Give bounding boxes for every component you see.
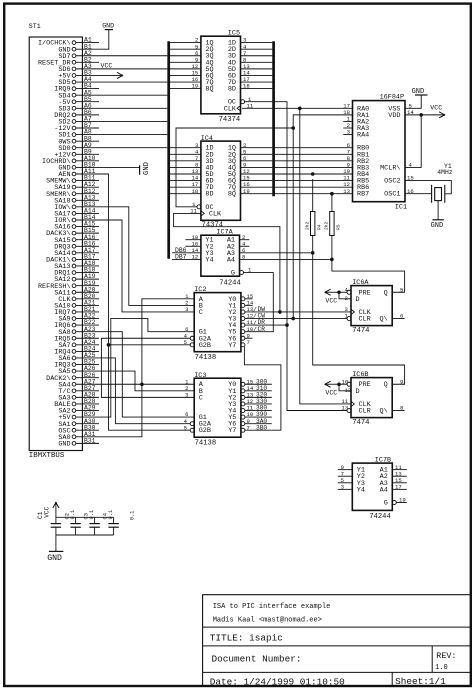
svg-text:16F84P: 16F84P: [380, 94, 404, 102]
svg-text:PRE: PRE: [359, 289, 371, 297]
wire OSC2 to resonator: [405, 175, 451, 194]
svg-text:PRE: PRE: [359, 381, 371, 389]
svg-text:IC6A: IC6A: [352, 279, 369, 287]
wire IC6B Q pin 9 to resistor R4 node: [313, 253, 405, 386]
svg-text:9: 9: [400, 378, 403, 385]
IC6A pin 3 CLK: [345, 306, 355, 315]
svg-text:3: 3: [341, 483, 344, 490]
connector ST1 pin B17 DACK1\: [46, 254, 99, 265]
svg-text:74138: 74138: [195, 354, 217, 362]
connector ST1 pin A1 I/OCHCK\: [38, 37, 99, 48]
wire SA5 to IC3 B: [99, 371, 194, 391]
svg-text:15: 15: [407, 175, 414, 182]
resonator Y1 4MHz: [432, 163, 453, 203]
IC2 pin 14 Y1 bubble: [241, 300, 254, 308]
svg-text:3B0: 3B0: [256, 424, 267, 431]
connector ST1 pin B24 IRQ4: [54, 345, 99, 356]
capacitor C4 0.1: [102, 510, 118, 535]
svg-text:74138: 74138: [195, 439, 217, 447]
svg-text:GND: GND: [431, 222, 444, 230]
svg-text:8D: 8D: [228, 86, 236, 94]
connector ST1 pin A28 SA3: [58, 391, 99, 402]
IC2 pin 5 G2B bubble: [184, 339, 195, 347]
node 380 at IC3 pin 11 Y4: [241, 405, 272, 413]
svg-text:VCC: VCC: [43, 506, 50, 517]
svg-text:Y7: Y7: [228, 427, 236, 435]
svg-text:CLK: CLK: [209, 210, 222, 218]
wire /CW IC2 Y3 to IC6A CLR: [245, 313, 347, 321]
svg-text:R5: R5: [336, 224, 342, 230]
wire RB2 bus to IC1 pin 8: [275, 155, 353, 162]
svg-text:VCC: VCC: [101, 62, 113, 69]
power VCC at IC6A PRE/D: [325, 286, 351, 304]
svg-text:ISA to PIC interface example: ISA to PIC interface example: [213, 603, 331, 611]
IC1 pin 3 RA4 stub: [343, 129, 352, 136]
svg-text:C: C: [199, 309, 203, 317]
svg-text:RA4: RA4: [357, 132, 369, 140]
svg-text:CW: CW: [258, 313, 266, 320]
IC7A pin 18 Y1 stub: [185, 234, 201, 241]
connector ST1 pin A10 IOCHRD\: [42, 155, 99, 166]
connector ST1 pin A31 SA0: [58, 431, 99, 442]
svg-text:Y7: Y7: [228, 342, 236, 350]
svg-text:5: 5: [400, 286, 403, 293]
svg-text:0.1: 0.1: [89, 510, 95, 520]
junction RA1 column at row 13: [291, 126, 295, 130]
IC2 pin 9 Y6 bubble: [241, 332, 250, 340]
IC2 pin 4 G2A bubble: [184, 332, 195, 340]
junction /CW: [291, 317, 295, 321]
IC7B pin 9 Y1 stub: [338, 464, 353, 471]
wire SA8 to IC3 G1: [99, 332, 194, 417]
wire RB6 bus to IC1 pin 12: [275, 181, 353, 188]
IC5 pin 2 1Q stub: [170, 37, 201, 44]
svg-text:7: 7: [247, 424, 250, 431]
svg-text:74374: 74374: [219, 116, 241, 124]
svg-text:B31: B31: [84, 437, 96, 444]
wire AEN to IC3 G2B and IC2 G2B: [99, 174, 190, 430]
node 330 at IC3 pin 12 Y3: [241, 398, 272, 406]
connector ST1 pin A24 SA7: [58, 339, 99, 350]
svg-text:G2B: G2B: [199, 342, 211, 350]
connector ST1 pin B21 IRQ7: [54, 306, 99, 317]
wire IC2 G2A to IC3 C: [101, 338, 194, 397]
title block text: [210, 603, 457, 687]
IC1 pin 1 RA2 stub: [343, 116, 352, 123]
node 310 at IC3 pin 14 Y1: [241, 385, 272, 393]
IC U7A 74244 buffer body: [201, 229, 241, 288]
IC5 pin 11 CLK: [237, 102, 254, 111]
junction RA0 node: [298, 107, 302, 111]
IC7B pin 19 G bubble stub: [392, 497, 407, 505]
wire IOR to IC2 C: [99, 220, 194, 312]
IC6A pin 6 Q\ stub: [392, 313, 404, 320]
svg-text:Y4: Y4: [205, 256, 213, 264]
connector ST1 pin B9 +12V: [54, 148, 99, 159]
wire SA0 to IC2 A: [99, 299, 194, 437]
connector ST1 pin A8 SD1: [58, 129, 99, 140]
connector ST1 pin A11 AEN: [58, 168, 99, 179]
svg-text:Q: Q: [384, 289, 388, 297]
svg-text:C: C: [199, 394, 203, 402]
svg-text:G2B: G2B: [199, 427, 211, 435]
svg-text:R4: R4: [316, 224, 322, 230]
svg-text:0.1: 0.1: [70, 510, 76, 520]
svg-text:IBMXTBUS: IBMXTBUS: [29, 452, 65, 460]
capacitor C1 0.1: [51, 517, 61, 535]
svg-text:IC7A: IC7A: [216, 229, 233, 237]
svg-text:Q\: Q\: [380, 316, 388, 324]
connector ST1 pin A14 SA17: [54, 208, 99, 219]
IC U6A 7474 flip-flop body: [351, 279, 392, 335]
IC2 pin 7 Y7 bubble: [241, 339, 250, 347]
svg-text:4MHz: 4MHz: [437, 169, 453, 176]
IC7A pin 2 A1 stub: [240, 234, 250, 241]
IC5 pin 7 3D stub: [241, 50, 273, 57]
wire SD7 connector to bus: [99, 55, 167, 57]
IC7B pin 7 Y2 stub: [338, 470, 353, 477]
wire IC2 Y7 to IC3 Y7 (3B0): [244, 347, 281, 431]
IC4 pin 5 2Q stub: [241, 148, 273, 155]
IC5 pin 17 7D stub: [241, 76, 273, 83]
connector ST1 pin B14 IOR\: [54, 214, 99, 225]
IC4 pin 2 1Q stub: [241, 142, 273, 149]
wire RB1 bus to IC1 pin 7: [275, 148, 353, 155]
wire SD2 connector to bus: [99, 120, 167, 122]
svg-text:IC1: IC1: [395, 204, 407, 212]
connector ST1 pin B16 DRQ3: [54, 240, 99, 251]
IC2 pin 10 Y5 bubble: [241, 326, 254, 334]
IC6B pin 11 CLK: [342, 398, 355, 407]
wire RB4 bus to IC1 pin 10: [275, 168, 353, 175]
IC U1 16F84P microcontroller body: [353, 94, 408, 212]
svg-text:Date: 1/24/1999 01:10:50: Date: 1/24/1999 01:10:50: [210, 676, 345, 687]
svg-text:14: 14: [407, 109, 414, 116]
svg-text:GND: GND: [102, 22, 114, 29]
connector ST1 pin A9 SD0: [58, 142, 99, 153]
wire SD4 connector to bus: [99, 94, 167, 96]
svg-text:A4: A4: [227, 256, 235, 264]
IC5 pin 8 4D stub: [241, 56, 273, 63]
connector ST1 pin B11 SMEMW\: [46, 175, 99, 186]
bus (right data bus): [272, 41, 275, 196]
IC5 pin 18 8D stub: [241, 83, 273, 90]
connector ST1 pin B19 REFRESH\: [38, 280, 99, 291]
IC7A pin 16 Y2 stub: [185, 240, 201, 247]
svg-text:10: 10: [342, 378, 349, 385]
IC6A pin 1 CLR bubble: [345, 313, 352, 321]
IC5 pin 19 8Q stub: [170, 83, 201, 90]
IC7B pin 13 A2 stub: [392, 470, 407, 477]
ground symbol at connector pin B10: [99, 162, 151, 175]
wire IC4 CLK to /DW net: [174, 213, 280, 312]
IC3 pin 5 G2B bubble: [184, 424, 195, 432]
svg-text:3: 3: [347, 129, 350, 136]
svg-text:19: 19: [192, 83, 199, 90]
svg-text:IC7B: IC7B: [375, 457, 391, 465]
IC U2 74138 decoder body: [194, 286, 241, 362]
connector ST1 pin B12 SMEMR\: [46, 188, 99, 199]
IC2 pin 13 Y2 bubble: [241, 306, 253, 314]
IC7B pin 11 A1 stub: [392, 464, 407, 471]
svg-text:19: 19: [243, 188, 250, 195]
IC6B pin 8 Q\ stub: [392, 405, 404, 412]
IC4 pin 9 4Q stub: [241, 162, 273, 169]
svg-text:8Q: 8Q: [228, 191, 236, 199]
svg-text:OSC1: OSC1: [384, 191, 400, 199]
svg-text:G: G: [384, 500, 388, 508]
connector ST1 pin A20 SA11: [54, 286, 99, 297]
svg-text:1.0: 1.0: [435, 664, 448, 672]
svg-text:D: D: [356, 296, 360, 304]
svg-text:VCC: VCC: [325, 298, 337, 305]
wire RB7 bus to IC1 pin 13: [275, 188, 353, 195]
svg-text:DB7: DB7: [175, 254, 187, 261]
IC4 pin 6 3Q stub: [241, 155, 273, 162]
connector ST1 pin B2 RESET_DR: [38, 56, 99, 67]
ground symbol at IC1 VSS pin 5: [405, 88, 428, 110]
wire RB0 bus to IC1 pin 6: [275, 142, 353, 149]
node 320 at IC3 pin 13 Y2: [241, 391, 272, 399]
connector ST1 pin A4 SD5: [58, 76, 99, 87]
wire RB5 bus to IC1 pin 11: [275, 175, 353, 182]
svg-text:2k2: 2k2: [324, 221, 330, 230]
IC4 pin 17 7D stub: [170, 181, 201, 188]
power VCC at capacitor bank: [37, 502, 59, 519]
svg-text:12: 12: [192, 254, 199, 261]
svg-text:8: 8: [242, 254, 245, 261]
IC3 pin 4 G2A bubble: [184, 418, 195, 426]
svg-text:Madis Kaal <mast@nomad.ee>: Madis Kaal <mast@nomad.ee>: [213, 617, 322, 625]
IC2 pin 11 Y4 bubble: [241, 319, 254, 327]
IC4 pin 4 2D stub: [170, 148, 201, 155]
IC4 pin 18 8D stub: [170, 188, 201, 195]
connector ST1 pin B6 DRQ2: [54, 109, 99, 120]
wire VDD to MCLR: [405, 115, 421, 169]
junction /DR at resistor column crossing: [285, 323, 289, 327]
connector ST1 pin A15 SA16: [54, 221, 99, 232]
connector ST1 pin B28 BALE: [54, 398, 99, 409]
svg-text:GND: GND: [58, 440, 70, 448]
connector ST1 pin B4 IRQ9: [54, 83, 99, 94]
IC5 pin 13 5D stub: [241, 63, 273, 70]
connector ST1 pin A27 SA4: [58, 378, 99, 389]
capacitor C2 0.1: [64, 510, 80, 535]
IC7A pin 4 A2 stub: [240, 240, 250, 247]
svg-text:IC3: IC3: [194, 372, 206, 380]
svg-text:12: 12: [345, 387, 352, 394]
junction /DW: [278, 310, 282, 314]
connector ST1 pin A23 SA8: [58, 326, 99, 337]
connector ST1 pin B27 T/C: [58, 385, 99, 396]
svg-text:IC5: IC5: [228, 30, 240, 38]
wire capacitor rail top: [56, 516, 114, 518]
ground symbol below resonator: [431, 201, 444, 231]
svg-text:2: 2: [345, 295, 348, 302]
connector ST1 pin A12 SA19: [54, 181, 99, 192]
svg-text:18: 18: [192, 188, 199, 195]
connector ST1 pin B26 DACK2\: [46, 372, 99, 383]
svg-text:19: 19: [399, 497, 406, 504]
svg-text:MCLR\: MCLR\: [380, 164, 400, 172]
svg-text:IC6B: IC6B: [352, 371, 368, 379]
wire OSC1 to resonator: [405, 188, 432, 195]
connector ST1 pin A29 SA2: [58, 405, 99, 416]
svg-text:7: 7: [247, 339, 250, 346]
node DB6 at IC7A pin 14 Y3: [172, 247, 201, 254]
wire IC6A Q pin 5 to resistor R5 node: [332, 259, 405, 293]
power VCC at connector pin B3: [99, 62, 123, 78]
svg-text:RB7: RB7: [357, 191, 369, 199]
node 390 at IC3 pin 10 Y5: [241, 411, 272, 419]
IC4 pin 1 OC: [192, 201, 201, 209]
resistor R5 2k2 (RB7 to DB7): [324, 194, 342, 260]
svg-text:Document Number:: Document Number:: [212, 654, 302, 665]
connector ST1 pin B5 -5V: [58, 96, 99, 107]
node 3A0 at IC3 pin 9 Y6: [241, 418, 272, 426]
IC7B pin 5 Y3 stub: [338, 477, 353, 484]
svg-text:Q\: Q\: [380, 408, 388, 416]
connector ST1 pin A18 SA13: [54, 260, 99, 271]
IC4 pin 13 5D stub: [170, 168, 201, 175]
connector ST1 pin B23 IRQ5: [54, 332, 99, 343]
svg-text:74244: 74244: [369, 513, 391, 521]
svg-text:2k2: 2k2: [305, 221, 311, 230]
ground symbol at connector pin B1: [99, 22, 114, 49]
svg-text:VDD: VDD: [388, 112, 400, 120]
junction RB6 / resistor R4: [311, 172, 315, 176]
power VCC at IC1 VDD pin 14: [405, 104, 445, 118]
svg-text:/: /: [253, 313, 257, 320]
ground symbol below capacitor bank: [47, 535, 63, 563]
wire AEN branch to IC2 G2B: [109, 344, 191, 346]
IC5 pin 16 7Q stub: [170, 76, 201, 83]
wire SD5 connector to bus: [99, 81, 167, 83]
connector ST1 pin B30 OSC: [58, 424, 99, 435]
connector ST1 pin A19 SA12: [54, 273, 99, 284]
connector ST1 pin A17 SA14: [54, 247, 99, 258]
connector ST1 pin A5 SD4: [58, 89, 99, 100]
connector ST1 pin B10 GND: [58, 162, 99, 173]
wire SD1 connector to bus: [99, 134, 167, 136]
svg-text:8Q: 8Q: [205, 86, 213, 94]
connector ST1 pin B7 -12V: [54, 122, 99, 133]
svg-text:OSC2: OSC2: [384, 178, 400, 186]
node 300 at IC3 pin 15 Y0: [241, 378, 272, 386]
svg-text:16: 16: [407, 188, 414, 195]
wire IOW to IC2 B: [99, 207, 194, 306]
svg-text:IC4: IC4: [201, 135, 213, 143]
IC5 pin 15 6Q stub: [170, 70, 201, 77]
svg-text:G: G: [231, 270, 235, 278]
IC4 pin 12 5Q stub: [241, 168, 273, 175]
wire /DW IC2 Y2 to IC6A CLK: [245, 306, 351, 314]
wire IC4 OC to node: [176, 128, 293, 207]
IC U7B 74244 buffer body: [352, 457, 392, 521]
IC2 Y0 stub: [245, 298, 253, 300]
IC7A pin 1 G: [240, 267, 253, 275]
wire /DR IC2 Y4 to junction: [245, 319, 287, 327]
IC5 pin 9 4Q stub: [170, 56, 201, 63]
IC7A pin 6 A3 wire to resistor R4: [240, 247, 315, 255]
connector ST1 pin B18 DRQ1: [54, 267, 99, 278]
IC4 pin 11 CLK: [190, 208, 204, 217]
svg-text:7474: 7474: [352, 327, 369, 335]
IC5 pin 3 1D stub: [241, 37, 273, 44]
IC U6B 7474 flip-flop body: [351, 371, 392, 427]
wire SD0 connector to bus: [99, 147, 167, 149]
IC5 pin 1 OC: [241, 96, 252, 104]
connector ST1 pin A25 SA6: [58, 352, 99, 363]
svg-text:CLK: CLK: [224, 105, 237, 113]
svg-text:17: 17: [395, 483, 402, 490]
wire RA1 column down to /CW row: [292, 128, 294, 319]
svg-text:/: /: [253, 326, 257, 333]
IC U3 74138 decoder body: [194, 372, 241, 448]
svg-text:8: 8: [400, 405, 403, 412]
connector ST1 pin B31 GND: [58, 437, 99, 448]
connector ST1 pin B15 DACK3\: [46, 227, 99, 238]
svg-text:A4: A4: [380, 486, 388, 494]
wire SD6 connector to bus: [99, 68, 167, 70]
IC5 pin 5 2Q stub: [170, 43, 201, 50]
IC7A pin 8 A4 wire to resistor R5: [240, 254, 334, 262]
capacitor C3 0.1: [83, 510, 99, 535]
connector ST1 pin A2 SD7: [58, 50, 99, 61]
wire IC5 OC to /DR net and IC6B CLR: [245, 102, 347, 411]
IC5 pin 12 5Q stub: [170, 63, 201, 70]
IC4 pin 16 7Q stub: [241, 181, 273, 188]
IC5 pin 14 6D stub: [241, 70, 273, 77]
connector ST1 pin A3 SD6: [58, 63, 99, 74]
svg-text:18: 18: [243, 83, 250, 90]
svg-text:GND: GND: [143, 162, 151, 175]
svg-text:VCC: VCC: [430, 104, 442, 111]
IC U5 74374 latch body: [201, 30, 241, 124]
connector ST1 pin B22 IRQ6: [54, 319, 99, 330]
IC4 pin 14 6D stub: [170, 175, 201, 182]
IC6B pin 13 CLR bubble: [342, 405, 352, 413]
wire SA6 to IC3 G2A: [99, 358, 190, 424]
IC4 pin 3 1D stub: [170, 142, 201, 149]
IC1 pin 2 RA3 stub: [343, 122, 352, 129]
svg-text:D: D: [356, 388, 360, 396]
svg-text:CLR: CLR: [359, 408, 371, 416]
wire RB3 bus to IC1 pin 9: [275, 162, 353, 169]
IC2 Y6 stub: [245, 337, 253, 339]
svg-text:ST1: ST1: [29, 23, 41, 30]
svg-text:0.1: 0.1: [130, 511, 136, 521]
IC2 pin 15 Y0 bubble: [241, 293, 253, 301]
resistor R4 2k2 (RB6 to DB6): [305, 179, 323, 253]
title block frame: [203, 595, 471, 686]
svg-text:GND: GND: [47, 554, 62, 563]
wire IC5 CLK / RA0: [242, 107, 353, 109]
IC U4 74374 latch body: [201, 135, 241, 229]
connector ST1 pin B20 CLK: [58, 293, 99, 304]
junction SA4/SA0 column: [140, 382, 144, 386]
connector ST1 pin B13 IOW\: [54, 201, 99, 212]
junction AEN to IC2 G2B: [107, 343, 111, 347]
svg-text:13: 13: [343, 188, 350, 195]
wire SA4 to IC3 A: [99, 383, 194, 385]
wire +5V B29 to IC2 G1: [99, 319, 194, 418]
svg-text:8D: 8D: [205, 191, 213, 199]
connector ST1 pin A7 SD2: [58, 116, 99, 127]
connector ST1 pin A13 SA18: [54, 194, 99, 205]
IC5 pin 4 2D stub: [241, 43, 273, 50]
svg-text:GND: GND: [412, 88, 425, 96]
